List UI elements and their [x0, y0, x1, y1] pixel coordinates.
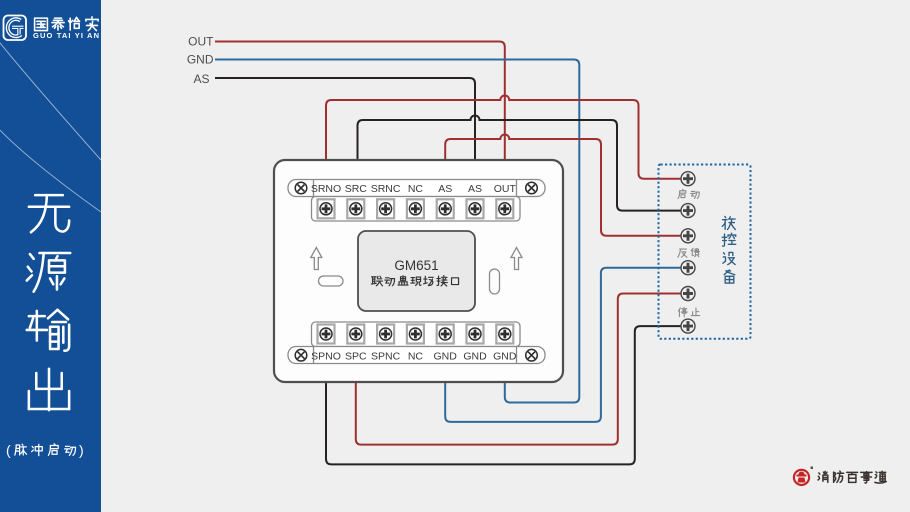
svg-text:GND: GND	[493, 351, 517, 363]
title 无源输出 (vertical)	[27, 195, 70, 410]
svg-text:): )	[79, 442, 84, 458]
terminal screw AS (top)	[467, 199, 484, 218]
wire SPC to 停止 (red)	[356, 294, 681, 445]
svg-text:OUT: OUT	[494, 183, 517, 195]
screw 启动-	[681, 204, 695, 218]
wire AS to 反馈 (red) with hop over OUT wire	[445, 135, 681, 236]
wire AS (black) from AS label to top terminal AS	[215, 78, 475, 200]
terminal screw SRNO (top)	[318, 199, 335, 218]
terminal screw GND (bottom)	[496, 325, 513, 344]
wire GND (blue) from GND label down right side to bottom GND terminal	[215, 60, 579, 403]
svg-text:AS: AS	[438, 183, 452, 195]
top strip dividers	[314, 180, 517, 198]
left up-arrow	[311, 248, 322, 270]
terminal screw SPNC (bottom)	[377, 325, 394, 344]
terminal screw NC (bottom)	[407, 325, 424, 344]
svg-text:SRNO: SRNO	[311, 183, 341, 195]
svg-text:SPNO: SPNO	[311, 351, 341, 363]
screw 反馈-	[681, 261, 695, 275]
wire SRC to 启动 (black) with hop over AS wire	[358, 116, 682, 211]
terminal screw OUT (top)	[496, 199, 513, 218]
company logo mark (rounded square with G)	[4, 16, 27, 41]
company name 国泰怡安	[35, 17, 98, 31]
label 反馈	[678, 249, 687, 257]
decorative arc 1	[0, 38, 101, 160]
svg-text:(: (	[6, 442, 11, 458]
bottom terminal block	[312, 322, 521, 347]
wire SPNO to 停止 (black)	[326, 326, 681, 464]
label 启动	[678, 189, 700, 316]
right up-arrow	[511, 248, 522, 270]
logo text 消防百事通	[818, 471, 886, 483]
left pill	[319, 276, 344, 286]
svg-text:AS: AS	[193, 72, 209, 86]
svg-text:NC: NC	[408, 351, 424, 363]
terminal screw SRC (top)	[347, 199, 364, 218]
mounting screw top-left	[295, 182, 307, 194]
module label 联动盘现场接口	[371, 276, 458, 287]
controlled device dashed box	[659, 165, 751, 339]
screw 停止-	[681, 319, 695, 333]
mounting screw bottom-right	[526, 349, 538, 361]
wire SRNO to 启动 (red) with hop over OUT wire	[326, 96, 681, 200]
terminal screw SPC (bottom)	[347, 325, 364, 344]
decorative arc 2	[0, 126, 101, 212]
terminal screw AS (top)	[437, 199, 454, 218]
svg-text:GND: GND	[434, 351, 458, 363]
svg-text:AS: AS	[468, 183, 482, 195]
svg-text:SPNC: SPNC	[371, 351, 401, 363]
bottom strip dividers	[314, 347, 517, 364]
screw 启动+	[681, 172, 695, 186]
mounting screw bottom-left	[295, 349, 307, 361]
mounting screw top-right	[526, 182, 538, 194]
terminal screw GND (bottom)	[437, 325, 454, 344]
wire bottom GND to 反馈 (blue)	[445, 268, 681, 422]
GM651 center module	[358, 231, 475, 311]
device GM651 outer box	[274, 160, 563, 382]
blue sidebar	[0, 0, 101, 512]
被控设备 vertical label	[722, 216, 735, 283]
bottom label strip	[288, 347, 545, 364]
svg-text:SPC: SPC	[345, 351, 367, 363]
svg-text:GM651: GM651	[394, 258, 438, 273]
terminal screw GND (bottom)	[467, 325, 484, 344]
terminal screw NC (top)	[407, 199, 424, 218]
svg-text:OUT: OUT	[188, 34, 214, 48]
svg-text:GND: GND	[463, 351, 487, 363]
screw 反馈+	[681, 229, 695, 243]
svg-text:GND: GND	[187, 52, 214, 66]
svg-text:SRNC: SRNC	[371, 183, 401, 195]
svg-text:SRC: SRC	[345, 183, 368, 195]
top label strip	[288, 180, 545, 197]
svg-text:GUO TAI YI AN: GUO TAI YI AN	[33, 31, 99, 40]
screw 停止+	[681, 287, 695, 301]
svg-text:NC: NC	[408, 183, 424, 195]
fire119 logo icon	[794, 467, 813, 486]
wire OUT (red) from OUT label to top terminal OUT	[215, 42, 505, 201]
right pill	[490, 269, 500, 294]
terminal screw SPNO (bottom)	[318, 325, 335, 344]
label 停止	[678, 307, 687, 316]
terminal screw SRNC (top)	[377, 199, 394, 218]
top terminal block	[312, 197, 521, 222]
